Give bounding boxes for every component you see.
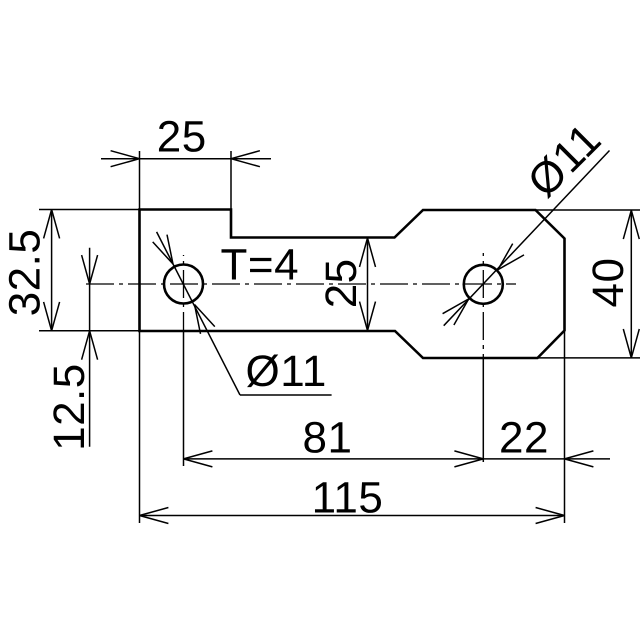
svg-text:25: 25 [157, 113, 207, 162]
dimension 40: arrows [623, 210, 639, 239]
dimension 40: extension lines [536, 209, 640, 211]
dimension 32.5: extension lines [39, 209, 140, 211]
svg-text:22: 22 [499, 414, 549, 463]
dimension 40: dimension line [630, 210, 632, 358]
svg-text:32.5: 32.5 [0, 229, 49, 317]
centerline horizontal [86, 283, 516, 285]
centerline right hole vertical [482, 253, 484, 358]
svg-text:25: 25 [317, 258, 366, 308]
dimension 25 top: extension lines [139, 151, 141, 210]
leader Ø11 left hole [157, 232, 240, 395]
dimension 115: dimension line [140, 515, 565, 517]
dimension 25 top: dimension line [101, 158, 271, 160]
svg-text:12.5: 12.5 [45, 363, 94, 451]
dimension 115: extension lines [139, 331, 141, 523]
dimension 12.5: dimension line [89, 248, 91, 447]
dimension 25 top: arrows [111, 151, 140, 167]
centerline left hole vertical [183, 255, 185, 331]
svg-text:Ø11: Ø11 [246, 347, 327, 396]
dimension 32.5: dimension line [51, 210, 53, 331]
dimension 12.5: arrows [82, 255, 98, 284]
dimension 22: arrow [565, 451, 594, 467]
dimension 81/22: dimension line [184, 458, 611, 460]
dimension 115: arrows [140, 508, 169, 524]
svg-text:115: 115 [312, 474, 384, 523]
dimension 32.5: arrows [44, 210, 60, 239]
hole right Ø11 [464, 265, 503, 304]
hole left Ø11 [164, 265, 203, 304]
svg-text:81: 81 [303, 414, 353, 463]
dimension 25 middle: dimension line [367, 238, 369, 331]
dimension 25 middle: arrows [360, 238, 376, 267]
plate outline [140, 210, 565, 359]
dimension 81: arrows [184, 451, 213, 467]
svg-text:T=4: T=4 [221, 241, 300, 290]
svg-text:40: 40 [584, 258, 633, 308]
leader Ø11 right hole [444, 151, 610, 326]
